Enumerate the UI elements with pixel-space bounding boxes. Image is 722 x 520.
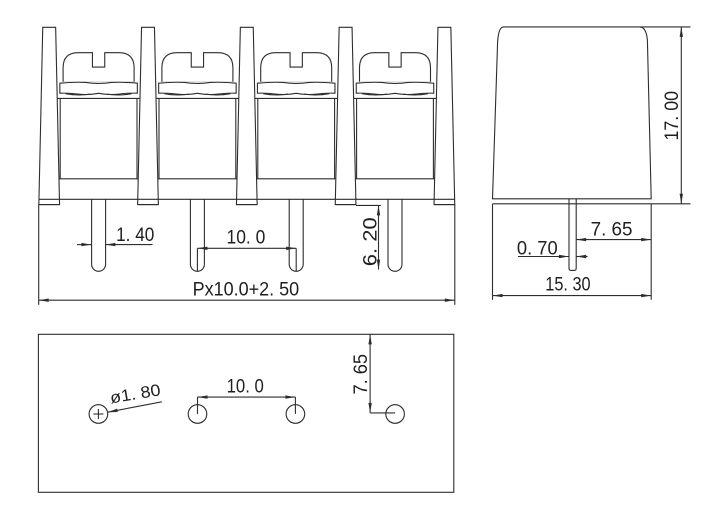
clamp band 3 lower wave accents <box>263 94 288 95</box>
clamp band 2 lower wave accents <box>164 94 189 95</box>
dimension 17.00 line <box>680 27 682 204</box>
screw head 4: slotted dome <box>360 53 431 82</box>
arrow 7.65 bottom bottom <box>368 403 371 413</box>
clamp band 1 lower wave accents <box>66 94 91 95</box>
arrow 7.65 side left <box>576 238 586 241</box>
arrow 6.20 top <box>377 205 380 215</box>
pin hole 4 <box>386 405 405 424</box>
side view body outline <box>493 27 652 199</box>
post 2 foot bottom <box>138 204 159 206</box>
terminal clamp band 3 <box>257 82 335 94</box>
pin hole 3 <box>286 405 305 424</box>
side view base strip <box>493 203 652 205</box>
leader to hole 4 centre <box>370 412 395 414</box>
overall width dimension extension lines <box>38 205 40 305</box>
dimension 17.00 extension lines <box>640 26 691 28</box>
screw head 3: dome bottom edge <box>261 80 332 82</box>
screw head 3: slotted dome <box>261 53 332 82</box>
dimension 15.30 line <box>493 295 652 297</box>
barrier post 5 <box>434 27 455 204</box>
hole 1 centre cross <box>93 413 103 415</box>
pin 3 centre tick <box>295 248 297 271</box>
arrow 10.0 front right <box>286 247 296 250</box>
hole 3 centre tick <box>294 397 296 414</box>
dimension 6.20 extension line <box>356 204 381 206</box>
arrow Px right <box>445 299 455 302</box>
arrow 1.40 right <box>105 243 115 246</box>
clamp band 4 lower wave accents <box>362 94 387 95</box>
dimension 7.65 (side) line <box>576 239 651 241</box>
arrow 6.20 bottom <box>377 260 380 270</box>
terminal clamp band 1 <box>60 82 138 94</box>
arrow 7.65 side right <box>641 238 651 241</box>
bay 3 cell walls <box>257 98 259 178</box>
arrow 7.65 bottom top <box>368 334 371 344</box>
arrow dia 1.80 <box>108 409 118 413</box>
arrow 17.00 bottom <box>680 194 683 204</box>
dimension 6.20 line <box>378 205 380 269</box>
arrow 15.30 left <box>493 294 503 297</box>
terminal clamp band 2 <box>159 82 237 94</box>
bottom view outline <box>38 334 453 492</box>
dimension 10.0 (bottom) line <box>198 396 296 398</box>
svg-text:7. 65: 7. 65 <box>350 354 372 395</box>
svg-text:10. 0: 10. 0 <box>227 227 266 249</box>
front view body bottom line <box>39 198 455 200</box>
barrier post 3 <box>236 27 257 204</box>
dimension 1.40: pin width leader lines <box>77 244 91 246</box>
dimension 7.65 (bottom) line <box>369 334 371 413</box>
arrow 0.70 right <box>576 255 586 258</box>
post 4 foot bottom <box>335 204 356 206</box>
post 3 foot bottom <box>236 204 257 206</box>
front view body top line <box>44 97 450 99</box>
pin hole 2 <box>188 405 207 424</box>
terminal clamp band 4 <box>356 82 434 94</box>
svg-text:17. 00: 17. 00 <box>661 91 683 141</box>
arrow 17.00 top <box>680 27 683 37</box>
barrier post 2 <box>138 27 159 204</box>
diameter 1.80 leader line <box>108 402 162 412</box>
solder pin 4 <box>388 199 402 271</box>
arrow 10.0 bottom right <box>285 395 295 398</box>
overall width dimension line Px10.0+2.50 <box>39 299 455 301</box>
arrow 1.40 left <box>81 243 91 246</box>
svg-text:7. 65: 7. 65 <box>591 218 633 240</box>
dimension 0.70 leader lines <box>518 256 569 258</box>
svg-text:Px10.0+2. 50: Px10.0+2. 50 <box>193 279 300 301</box>
dimension 15.30 extension lines <box>492 204 494 300</box>
solder pin 3 <box>289 199 303 271</box>
barrier post 1 <box>39 27 60 204</box>
bay 4 cell walls <box>356 98 358 178</box>
screw head 2: dome bottom edge <box>162 80 233 82</box>
screw head 1: dome bottom edge <box>63 80 134 82</box>
svg-text:15. 30: 15. 30 <box>545 274 590 296</box>
arrow 10.0 front left <box>197 247 207 250</box>
screw head 4: dome bottom edge <box>360 80 431 82</box>
barrier post 4 <box>335 27 356 204</box>
arrow 15.30 right <box>641 294 651 297</box>
arrow 0.70 left <box>559 255 569 258</box>
post 1 foot bottom <box>39 204 60 206</box>
arrow Px left <box>39 299 49 302</box>
screw head 2: slotted dome <box>162 53 233 82</box>
solder pin 2 <box>190 199 204 271</box>
arrow 10.0 bottom left <box>198 395 208 398</box>
hole 2 centre tick <box>197 397 199 414</box>
pin 2 centre tick <box>196 248 198 271</box>
front view body mid line <box>44 178 450 180</box>
svg-text:10. 0: 10. 0 <box>227 376 264 398</box>
bay 1 cell walls <box>59 98 61 178</box>
dimension 10.0 (front) line <box>197 247 296 249</box>
svg-text:6. 20: 6. 20 <box>359 217 381 266</box>
post 5 foot bottom <box>434 204 455 206</box>
side view pin <box>569 199 576 271</box>
screw head 1: slotted dome <box>63 53 134 82</box>
solder pin 1 <box>92 199 106 271</box>
svg-text:0. 70: 0. 70 <box>517 237 558 259</box>
svg-text:1. 40: 1. 40 <box>116 224 154 246</box>
bay 2 cell walls <box>158 98 160 178</box>
pin hole 1 <box>89 405 108 424</box>
